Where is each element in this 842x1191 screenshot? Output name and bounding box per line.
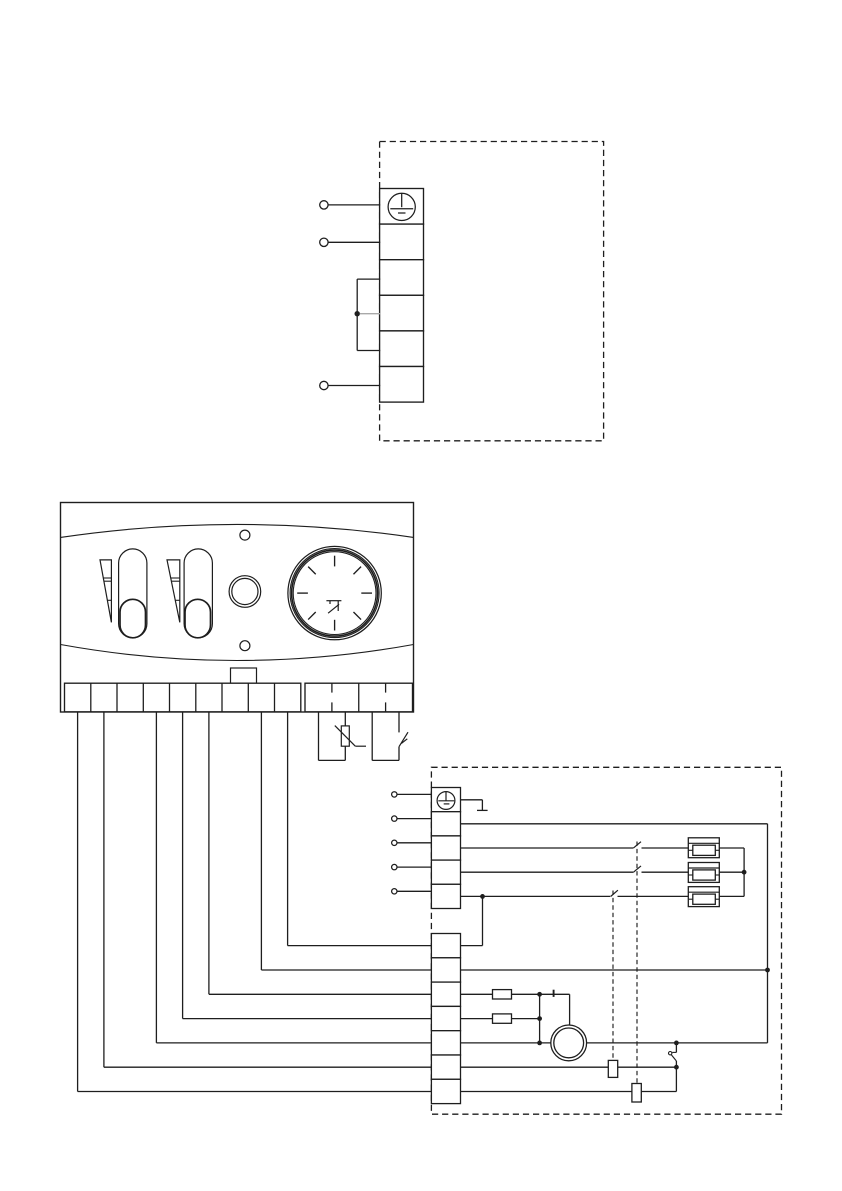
slider lever 1: knob — [120, 599, 146, 638]
flow switch contact — [399, 732, 408, 747]
wire: A2 to tie wire — [641, 1091, 676, 1093]
junction node on coil bus — [742, 870, 747, 875]
dashed enclosure: boiler control unit (top) — [380, 142, 604, 441]
terminal circle: mains lead 3 — [392, 840, 397, 845]
terminal block X1 (6-pole, top) — [380, 189, 424, 225]
panel terminal strip: left group (9 poles) — [65, 683, 301, 712]
capacitor tap mark — [553, 990, 555, 997]
NTC temperature sensor — [335, 726, 366, 747]
linkage (dashed) relay armature to control unit — [612, 891, 614, 1061]
wire: pump M1 to bus corner — [587, 1042, 768, 1044]
terminal circle: mains lead 1 — [392, 792, 397, 797]
panel fascia upper curve — [61, 524, 414, 537]
relay contact blade on coil 1 wire — [633, 842, 641, 849]
rotary knob (centre) — [229, 576, 261, 608]
slider lever 2: knob — [185, 599, 211, 638]
wire: mains lead 4 to X2 pin 4 — [397, 866, 431, 868]
resistor R1 — [493, 990, 512, 999]
wire with capacitor tap to pump feed — [540, 993, 570, 995]
harness wire from panel terminal 6 — [209, 712, 432, 995]
protective earth symbol in X1 pin 1 — [388, 193, 415, 220]
pump motor M1 — [551, 1025, 587, 1061]
wire: A1 to switch junction — [618, 1066, 677, 1068]
slider lever 2: housing slot — [184, 549, 212, 638]
timer clock dial — [288, 546, 381, 639]
gas valve operator coil 3 — [688, 887, 719, 907]
control panel housing outline — [61, 503, 414, 713]
branch wire pin 5 to X2 lower pin 1 — [461, 896, 483, 945]
wire: X2 lower pin 3 to resistor R1 — [461, 993, 493, 995]
wire: contact to gas valve coil 3 — [618, 895, 689, 897]
wire loop to flow switch — [372, 712, 399, 761]
wire: lead 3 to X1 pin 6 — [328, 385, 380, 387]
gas valve operator coil 2 — [688, 863, 719, 883]
junction node R2 branch — [537, 1016, 542, 1021]
wire: earth lead to X1 pin 1 — [328, 204, 380, 206]
vertical tie wire R1/R2/pump line — [539, 994, 541, 1043]
wire loop to NTC sensor — [319, 712, 346, 761]
relay contact blade on coil 2 wire — [633, 866, 641, 873]
connector notch on panel — [231, 668, 257, 683]
harness wire from panel terminal 4 — [156, 712, 431, 1043]
wire: contact to gas valve coil 2 — [642, 871, 689, 873]
tie wire pin 6 to pin 7 line — [675, 1067, 677, 1091]
scale wedge indicator (left) — [100, 560, 111, 623]
wire: coil 1 to common bus — [719, 847, 744, 849]
terminal block X2 lower stack (7 poles) — [431, 934, 460, 958]
bus wire down right side — [767, 824, 769, 1043]
ignition unit A1 (on linkage) — [608, 1060, 617, 1077]
wire: coil 2 to common bus — [719, 871, 744, 873]
protective earth symbol in X2 pin 1 — [437, 792, 455, 810]
terminal circle: lead 3 (top) — [320, 381, 328, 389]
wire: X2 lower pin 7 to control unit A2 — [461, 1091, 632, 1093]
scale wedge indicator (right) — [167, 560, 180, 623]
relay contact blade on coil 3 wire — [611, 890, 618, 896]
harness wire from panel terminal 5 — [183, 712, 432, 1019]
wire: X2 pin 2 to right-side bus — [461, 823, 768, 825]
wire: mains lead 2 to X2 pin 2 — [397, 818, 431, 820]
panel screw (upper) — [240, 530, 250, 540]
panel screw (lower) — [240, 641, 250, 651]
junction node R1 branch — [537, 992, 542, 997]
terminal circle: mains lead 4 — [392, 864, 397, 869]
junction node on pump line — [537, 1041, 542, 1046]
linkage (dashed) relay armature to ignition unit — [636, 842, 638, 1084]
wire: X2 lower pin 6 to ignition unit A1 — [461, 1066, 609, 1068]
wire: X2 pin 3 toward gas valve coil 1 — [461, 847, 634, 849]
auxiliary switch (pump line to ignition feed) — [669, 1043, 677, 1066]
terminal block X2 upper stack (5 poles) — [431, 788, 460, 812]
wire: X2 pin 5 toward gas valve coil 3 — [461, 895, 611, 897]
wire: mains lead 1 to X2 pin 1 — [397, 793, 431, 795]
junction node pump line / switch feed — [674, 1041, 679, 1046]
wire: X2 lower pin 5 to pump M1 — [461, 1042, 551, 1044]
wire: X2 lower pin 2 to bus — [461, 969, 768, 971]
wire (grey) node to X1 pin 4 — [360, 313, 380, 315]
wire: coil 3 to common bus — [719, 895, 744, 897]
wire: R1 to node — [512, 993, 540, 995]
wire: mains lead 5 to X2 pin 5 — [397, 890, 431, 892]
timer clock centre mark — [326, 601, 341, 614]
panel fascia lower curve — [61, 645, 414, 661]
coil common bus — [743, 848, 745, 896]
wire down to pump M1 top — [569, 994, 571, 1025]
junction node on pin 5 wire — [480, 894, 485, 899]
terminal circle: mains lead 2 — [392, 816, 397, 821]
harness wire from panel terminal 1 — [78, 712, 432, 1092]
wire: contact to gas valve coil 1 — [642, 847, 689, 849]
terminal circle: earth lead (top) — [320, 201, 328, 209]
harness wire from panel terminal 9 — [288, 712, 432, 946]
terminal circle: mains lead 5 — [392, 889, 397, 894]
link strap between X1 pins 3 and 5 — [357, 279, 380, 350]
wire: X2 lower pin 4 to resistor R2 — [461, 1018, 493, 1020]
wire: lead 2 to X1 pin 2 — [328, 241, 380, 243]
junction node bus / neutral return — [765, 968, 770, 973]
resistor R2 — [493, 1014, 512, 1023]
gas valve operator coil 1 — [688, 838, 719, 858]
panel terminal strip: right group (4 poles) — [305, 683, 413, 712]
earth stub from X2 pin 1 — [461, 800, 488, 811]
junction node on link strap — [355, 311, 360, 316]
harness wire from panel terminal 8 — [261, 712, 431, 970]
junction node switch / pin 6 / pin 7 — [674, 1065, 679, 1070]
wire: R2 to node — [512, 1018, 540, 1020]
wire: X2 pin 4 toward gas valve coil 2 — [461, 871, 634, 873]
terminal circle: lead 2 (top) — [320, 238, 328, 246]
dashed enclosure: boiler junction box (bottom) — [431, 767, 781, 1114]
harness wire from panel terminal 2 — [104, 712, 432, 1067]
control unit A2 (on linkage) — [632, 1084, 641, 1103]
slider lever 1: housing slot — [119, 549, 147, 638]
wire: mains lead 3 to X2 pin 3 — [397, 842, 431, 844]
